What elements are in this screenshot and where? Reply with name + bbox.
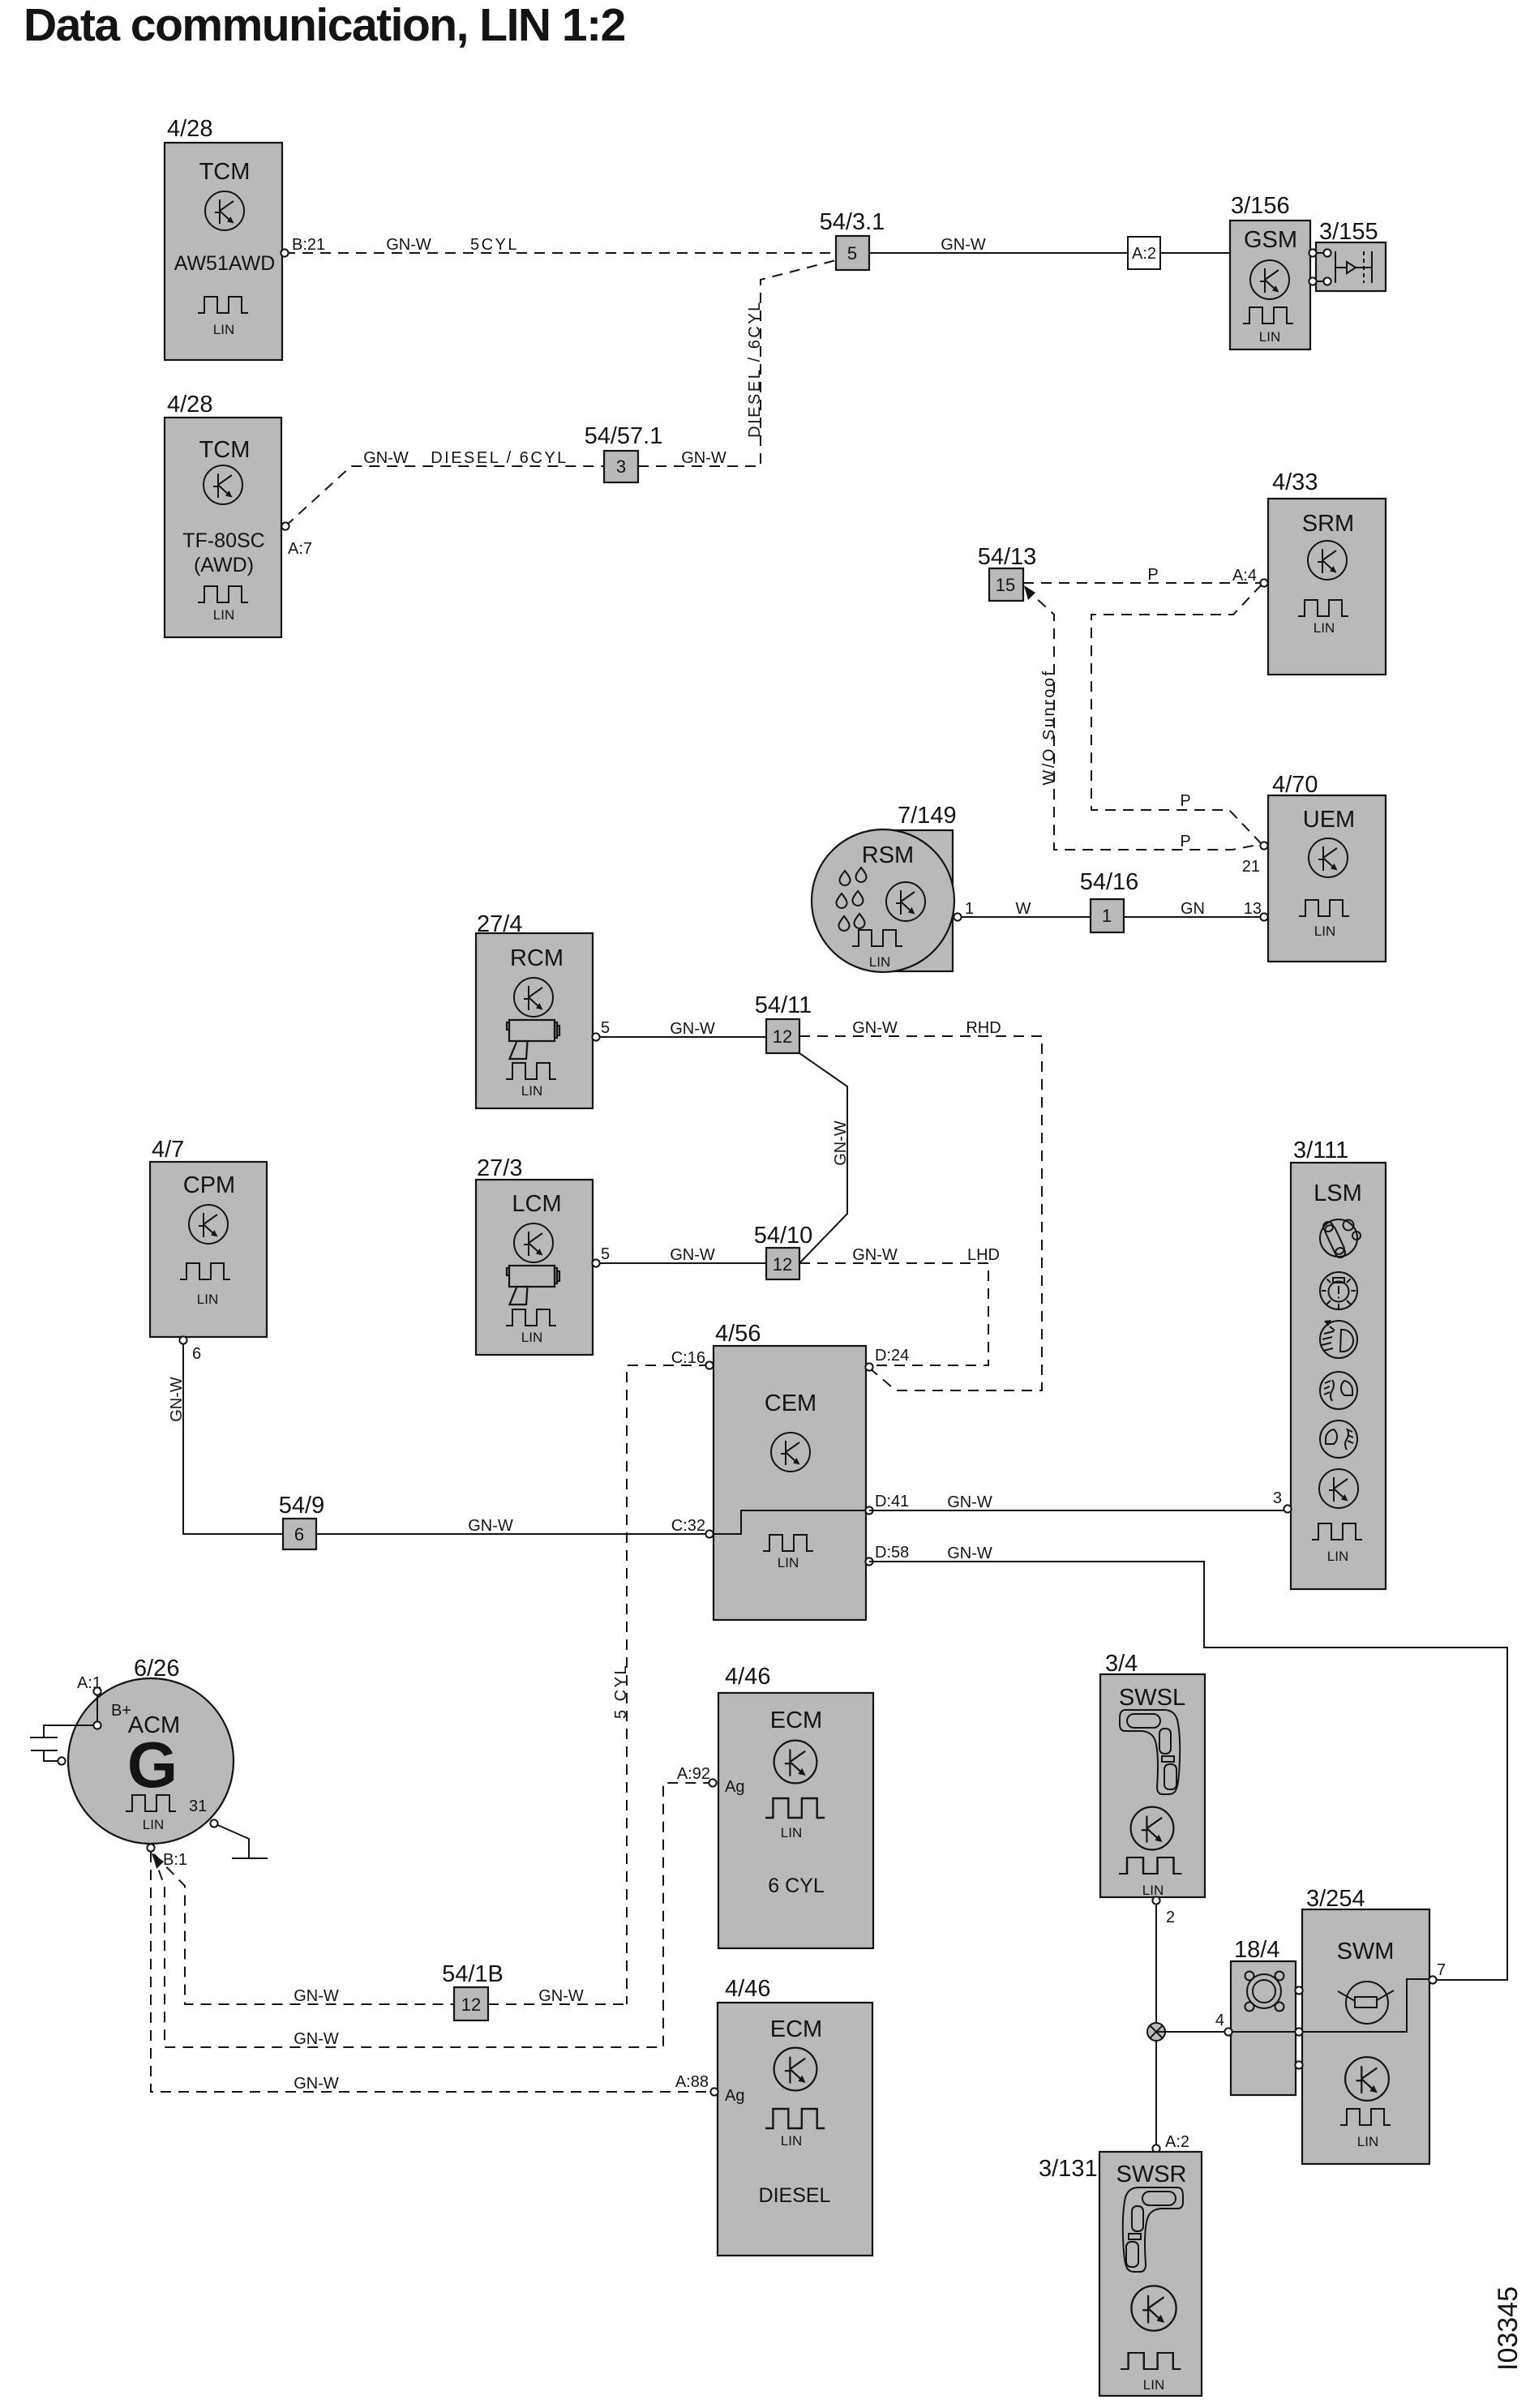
svg-text:54/57.1: 54/57.1 (585, 423, 663, 449)
pin 5 RCM (592, 1033, 599, 1040)
module ACM 6/26 (68, 1656, 234, 1844)
svg-text:LHD: LHD (967, 1246, 1000, 1264)
svg-text:21: 21 (1242, 858, 1260, 876)
connector 54/10 pin 12 (754, 1223, 813, 1279)
svg-text:A:2: A:2 (1165, 2133, 1189, 2151)
svg-text:UEM: UEM (1303, 807, 1355, 833)
wire GN-W from 54/9 to CEM C:32 (316, 1517, 709, 1535)
svg-text:GN-W: GN-W (947, 1545, 992, 1562)
svg-text:GN: GN (1181, 900, 1205, 918)
svg-text:4: 4 (1215, 2012, 1224, 2029)
pin 3 LSM (1284, 1505, 1291, 1512)
svg-text:LIN: LIN (521, 1083, 542, 1099)
module 18/4 (1231, 1937, 1296, 2095)
svg-text:4/7: 4/7 (152, 1137, 184, 1163)
connector 54/57.1 pin 3 (585, 423, 663, 482)
pin GSM upper / 3-155 pins (1309, 249, 1316, 256)
svg-text:18/4: 18/4 (1234, 1937, 1279, 1963)
svg-text:LIN: LIN (1143, 2377, 1164, 2393)
svg-text:P: P (1180, 833, 1190, 851)
svg-text:GN-W: GN-W (947, 1493, 992, 1511)
module SRM 4/33 (1268, 469, 1386, 675)
pin A:4 (1260, 579, 1267, 586)
module CPM 4/7 (150, 1137, 267, 1337)
svg-text:3/254: 3/254 (1306, 1886, 1365, 1912)
svg-text:LIN: LIN (1357, 2134, 1378, 2149)
svg-text:TF-80SC: TF-80SC (182, 529, 264, 552)
svg-text:LIN: LIN (521, 1330, 542, 1345)
pin A:7 (281, 522, 289, 529)
svg-text:54/11: 54/11 (755, 992, 812, 1018)
pin A:88 (710, 2088, 718, 2095)
svg-text:DIESEL: DIESEL (759, 2184, 831, 2207)
svg-text:4/33: 4/33 (1272, 469, 1318, 495)
module ECM 4/46 DIESEL (718, 1976, 872, 2256)
wire GN-W from 54/3.1 to A:2 (869, 236, 1128, 254)
wire W/O Sunroof from 54/13 to UEM 21 (1024, 585, 1262, 851)
svg-text:P: P (1147, 566, 1158, 584)
pin 21 (1260, 842, 1267, 849)
svg-text:GN-W: GN-W (294, 1987, 339, 2005)
svg-text:GN-W: GN-W (386, 236, 431, 254)
svg-text:GN-W: GN-W (832, 1120, 850, 1166)
svg-text:B:1: B:1 (163, 1851, 187, 1869)
icon rear fog (1320, 1420, 1357, 1458)
svg-text:6: 6 (192, 1345, 201, 1363)
svg-text:15: 15 (996, 575, 1015, 595)
svg-text:A:7: A:7 (288, 540, 312, 558)
svg-text:4/46: 4/46 (725, 1976, 770, 2002)
svg-text:GN-W: GN-W (294, 2030, 339, 2048)
wire GN-W link 54/11 to 54/10 (799, 1053, 850, 1263)
svg-text:3/155: 3/155 (1319, 219, 1378, 245)
icon light switch (1320, 1272, 1357, 1309)
module RCM 27/4 (476, 911, 593, 1108)
svg-text:SWSR: SWSR (1116, 2162, 1187, 2187)
svg-text:31: 31 (189, 1797, 207, 1815)
wire GN-W from CEM D:41 to LSM 3 (869, 1493, 1284, 1511)
svg-text:CPM: CPM (183, 1172, 235, 1198)
svg-text:2: 2 (1166, 1909, 1175, 1926)
svg-text:LIN: LIN (1142, 1883, 1164, 1898)
svg-text:4/56: 4/56 (715, 1321, 761, 1347)
svg-text:TCM: TCM (199, 437, 251, 463)
svg-text:DIESEL / 6CYL: DIESEL / 6CYL (746, 300, 764, 438)
connector 54/9 pin 6 (279, 1493, 324, 1549)
svg-text:CEM: CEM (765, 1390, 816, 1416)
svg-text:A:88: A:88 (675, 2073, 709, 2091)
svg-text:LIN: LIN (781, 2133, 802, 2149)
svg-text:3/156: 3/156 (1231, 193, 1290, 219)
module RSM 7/149 (rain sensor) (812, 803, 957, 972)
module TCM 4/28 (AW51AWD) (165, 116, 282, 360)
connector 54/11 pin 12 (755, 992, 812, 1053)
svg-text:27/3: 27/3 (477, 1155, 522, 1181)
connector 54/13 pin 15 (978, 544, 1037, 601)
pin 7 SWM (1429, 1976, 1436, 1983)
svg-text:P: P (1180, 792, 1190, 810)
pin 1 RSM (954, 913, 961, 920)
svg-text:5: 5 (601, 1019, 610, 1037)
icon headlamp (1320, 1320, 1357, 1358)
module GSM 3/156 (1230, 193, 1310, 349)
module LCM 27/3 (476, 1155, 593, 1355)
svg-text:SRM: SRM (1302, 511, 1354, 537)
svg-text:LIN: LIN (778, 1555, 799, 1570)
wire B:21 GN-W 5CYL from TCM to 54/3.1 (285, 236, 836, 254)
pin A:92 (709, 1779, 716, 1786)
junction (1147, 2023, 1165, 2041)
connector A:2 (1128, 237, 1160, 269)
svg-text:GN-W: GN-W (852, 1246, 898, 1264)
svg-text:Data communication, LIN 1:2: Data communication, LIN 1:2 (24, 0, 625, 51)
wire GN-W from CPM 6 to 54/9 (168, 1340, 283, 1534)
wire A:7 GN-W DIESEL/6CYL to 54/57.1 (285, 449, 604, 558)
svg-text:RHD: RHD (966, 1019, 1001, 1037)
svg-text:C:16: C:16 (671, 1349, 705, 1367)
svg-text:LIN: LIN (213, 607, 234, 623)
svg-text:LIN: LIN (781, 1825, 802, 1840)
svg-text:7/149: 7/149 (898, 803, 957, 829)
svg-text:GN-W: GN-W (294, 2075, 339, 2093)
svg-text:C:32: C:32 (671, 1517, 705, 1535)
svg-text:GN-W: GN-W (852, 1019, 898, 1037)
module 3/155 shift lock (1309, 219, 1386, 291)
pin B:1 and fan of three GN-W wires (151, 1783, 711, 2092)
svg-text:I03345: I03345 (1493, 2286, 1524, 2371)
wire W from RSM 1 to 54/16 (958, 900, 1091, 918)
svg-text:(AWD): (AWD) (194, 554, 254, 576)
svg-text:D:58: D:58 (875, 1544, 909, 1562)
svg-text:4/28: 4/28 (167, 392, 212, 418)
svg-text:B:21: B:21 (292, 236, 325, 254)
svg-text:6 CYL: 6 CYL (768, 1875, 825, 1897)
svg-text:SWM: SWM (1337, 1939, 1395, 1965)
wire junction to 18/4 pin 4 and through to SWM 7 (1215, 1961, 1446, 2029)
svg-text:DIESEL / 6CYL: DIESEL / 6CYL (431, 449, 568, 467)
icon front fog (1320, 1372, 1357, 1409)
wire P from SRM A:4 to UEM 21 (1091, 585, 1262, 844)
wire GN-W RHD from 54/11 to CEM D:24 (799, 1019, 1042, 1390)
svg-text:LIN: LIN (869, 954, 890, 970)
svg-text:54/3.1: 54/3.1 (820, 209, 885, 235)
svg-text:G: G (127, 1729, 178, 1801)
svg-text:LIN: LIN (197, 1292, 218, 1307)
svg-text:ECM: ECM (770, 1707, 822, 1733)
pin B:21 (281, 249, 288, 256)
svg-text:1: 1 (965, 900, 974, 918)
svg-text:54/9: 54/9 (279, 1493, 324, 1519)
svg-text:LIN: LIN (213, 322, 234, 337)
svg-text:12: 12 (773, 1254, 792, 1275)
svg-text:TCM: TCM (199, 159, 251, 185)
ground from pin 31 (214, 1823, 268, 1858)
svg-text:GN-W: GN-W (941, 236, 986, 254)
svg-text:54/13: 54/13 (978, 544, 1037, 570)
svg-text:GN-W: GN-W (168, 1377, 186, 1422)
svg-text:W/O Sunroof: W/O Sunroof (1040, 669, 1058, 785)
svg-text:6: 6 (294, 1524, 304, 1545)
svg-text:5CYL: 5CYL (470, 236, 519, 254)
svg-text:GSM: GSM (1244, 227, 1297, 253)
wire GN from 54/16 to UEM 13 (1124, 900, 1262, 918)
battery (30, 1725, 97, 1761)
icon interior light (1320, 1219, 1361, 1258)
svg-text:GN-W: GN-W (538, 1987, 584, 2005)
svg-text:ECM: ECM (770, 2016, 822, 2042)
svg-text:5 CYL: 5 CYL (612, 1664, 630, 1719)
svg-text:Ag: Ag (725, 2087, 744, 2105)
svg-text:Ag: Ag (725, 1778, 744, 1796)
wire A:2 to GSM (1160, 252, 1230, 254)
svg-text:12: 12 (773, 1026, 792, 1047)
pin 6 CPM (179, 1336, 186, 1343)
wire GN-W LHD from 54/10 to CEM D:24 (799, 1246, 1000, 1365)
module ECM 4/46 6CYL (718, 1664, 873, 1948)
pin 31 (210, 1819, 217, 1827)
wire 1 labels + connector 54/1B pin 12 (294, 1961, 627, 2020)
svg-text:4/28: 4/28 (167, 116, 212, 142)
svg-text:1: 1 (1102, 906, 1112, 926)
wire GN-W from LCM 5 to 54/10 (596, 1245, 766, 1264)
pin B:1 (147, 1844, 154, 1851)
svg-text:LIN: LIN (1314, 923, 1335, 939)
svg-text:3/131: 3/131 (1039, 2156, 1098, 2182)
svg-text:3/111: 3/111 (1293, 1138, 1348, 1163)
svg-text:7: 7 (1437, 1961, 1446, 1979)
pin 5 LCM (592, 1259, 599, 1266)
svg-text:3: 3 (1273, 1489, 1282, 1507)
svg-text:LIN: LIN (143, 1817, 164, 1832)
svg-text:AW51AWD: AW51AWD (174, 252, 276, 275)
pins CEM C:16 D:24 C:32 D:41 D:58 (705, 1361, 713, 1369)
module SWSL 3/4 steering wheel switches left (1100, 1651, 1205, 1898)
wire GN-W from 54/57.1 up to 54/3.1 (DIESEL/6CYL riser) (638, 260, 836, 467)
svg-text:LIN: LIN (1327, 1549, 1348, 1564)
module CEM 4/56 (709, 1321, 869, 1620)
svg-text:D:24: D:24 (875, 1347, 909, 1365)
icon transistor (1319, 1469, 1358, 1508)
svg-text:RCM: RCM (510, 945, 564, 971)
svg-text:LIN: LIN (1259, 329, 1280, 345)
wire P from 54/13 to SRM A:4 (1023, 566, 1260, 585)
module LSM 3/111 (1291, 1138, 1386, 1589)
module SWSR 3/131 steering wheel switches right (1039, 2152, 1202, 2396)
wire junction through 18/4 into SWM to pin 7 (1156, 1979, 1429, 2032)
svg-text:54/1B: 54/1B (442, 1961, 504, 1987)
svg-text:GN-W: GN-W (670, 1246, 715, 1264)
svg-text:SWSL: SWSL (1119, 1685, 1185, 1711)
svg-text:54/16: 54/16 (1080, 869, 1139, 895)
svg-text:A:2: A:2 (1132, 245, 1156, 263)
wire SWSL 2 to junction to SWSR A:2 (1156, 1904, 1189, 2151)
pin 13 (1260, 913, 1267, 920)
svg-text:4/46: 4/46 (725, 1664, 770, 1690)
svg-text:5: 5 (847, 243, 857, 264)
svg-text:4/70: 4/70 (1272, 772, 1318, 798)
svg-text:LIN: LIN (1314, 620, 1335, 636)
svg-text:LSM: LSM (1314, 1180, 1362, 1206)
svg-text:13: 13 (1244, 900, 1262, 918)
pins A:1 and B+ (93, 1687, 101, 1695)
wire GN-W from CEM D:58 to SWM 7 (869, 1545, 1507, 1980)
svg-text:A:4: A:4 (1232, 567, 1257, 585)
pin 4 and 18/4-SWM pins (1224, 2028, 1232, 2035)
wire GN-W from RCM 5 to 54/11 (596, 1019, 766, 1038)
svg-text:12: 12 (461, 1995, 481, 2015)
svg-text:GN-W: GN-W (681, 449, 726, 467)
svg-text:3: 3 (616, 456, 626, 477)
svg-text:RSM: RSM (862, 842, 914, 868)
connector 54/16 pin 1 (1080, 869, 1139, 932)
svg-text:GN-W: GN-W (363, 449, 409, 467)
pin 2 SWSL and pin A:2 SWSR (1152, 1896, 1159, 1904)
module SWM 3/254 steering wheel module (1302, 1886, 1429, 2164)
svg-text:GN-W: GN-W (670, 1020, 715, 1038)
svg-text:LCM: LCM (512, 1191, 561, 1217)
svg-text:GN-W: GN-W (468, 1517, 513, 1535)
connector 54/3.1 pin 5 (820, 209, 885, 270)
svg-text:D:41: D:41 (875, 1493, 909, 1510)
module TCM 4/28 (TF-80SC AWD) (165, 392, 281, 637)
svg-text:3/4: 3/4 (1105, 1651, 1138, 1677)
svg-text:5: 5 (601, 1245, 610, 1263)
svg-text:54/10: 54/10 (754, 1223, 813, 1249)
5CYL dashed wire from CEM C:16 down to 54/1B line (612, 1365, 709, 2004)
wire A:1 to B+ (77, 1674, 101, 1725)
svg-text:A:92: A:92 (677, 1765, 710, 1783)
svg-text:W: W (1016, 900, 1031, 918)
module UEM 4/70 (1268, 772, 1386, 962)
